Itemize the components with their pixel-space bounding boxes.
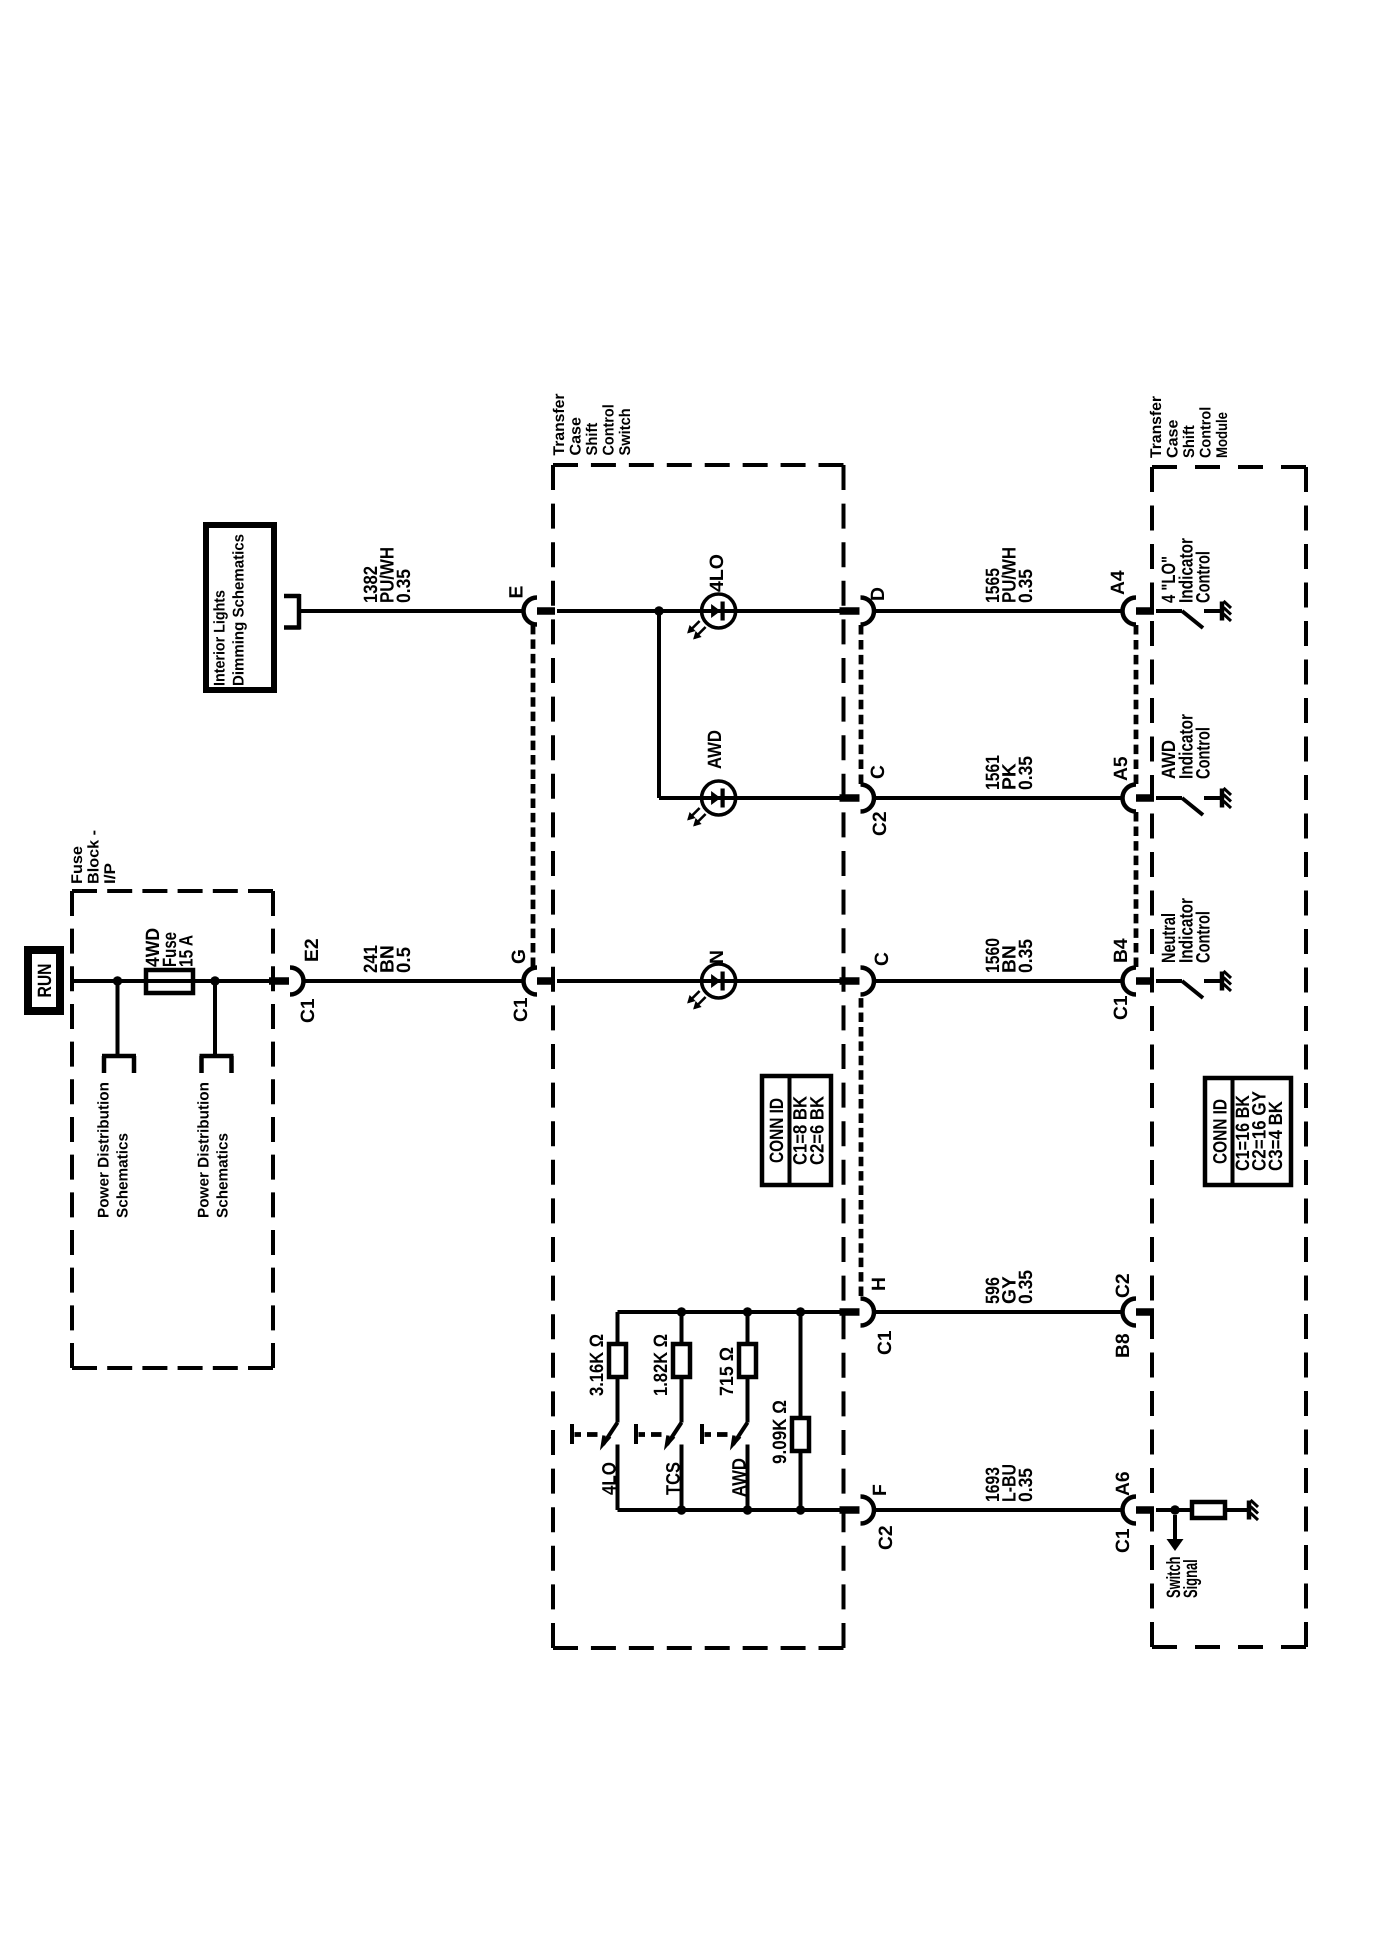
rung 9.09K wire segments — [799, 1312, 803, 1510]
svg-text:Block -: Block - — [86, 830, 103, 884]
svg-text:Control: Control — [1194, 727, 1215, 779]
wire A6 internal — [1156, 1508, 1192, 1512]
label 596 GY 0.35 — [983, 1270, 1037, 1304]
label transfer case shift control module — [1148, 396, 1231, 458]
CONN ID table (module) — [1205, 1078, 1291, 1185]
junction dot H bus — [796, 1307, 805, 1316]
dotted connector line C2 D-C — [859, 625, 864, 784]
svg-text:C1: C1 — [875, 1330, 896, 1355]
svg-text:C: C — [872, 952, 893, 966]
svg-text:4LO: 4LO — [707, 554, 728, 592]
connector G (switch) — [524, 968, 556, 995]
wire 1560 BN — [874, 979, 1123, 983]
switch signal arrow — [1167, 1515, 1184, 1551]
dotted connector line C-H — [859, 998, 864, 1296]
wire row1 inside switch — [557, 609, 702, 613]
svg-text:C1: C1 — [1111, 995, 1132, 1020]
wire 596 GY — [874, 1310, 1123, 1314]
junction dot bus 2 — [210, 976, 219, 985]
svg-text:Schematics: Schematics — [115, 1133, 132, 1218]
svg-text:0.35: 0.35 — [1016, 939, 1037, 973]
resistor 715 Ω — [739, 1344, 756, 1377]
wire 241 BN 0.5 — [304, 979, 524, 983]
svg-text:D: D — [868, 587, 889, 601]
svg-text:CONN ID: CONN ID — [1211, 1099, 1232, 1164]
svg-text:0.35: 0.35 — [1016, 569, 1037, 603]
svg-text:N: N — [707, 950, 728, 964]
wire 1561 PK — [874, 796, 1123, 800]
connector E (switch) — [524, 598, 556, 625]
off-page bracket power dist 1 — [102, 1056, 136, 1073]
resistor (module pull) — [1192, 1502, 1225, 1518]
svg-text:I/P: I/P — [102, 863, 119, 884]
transfer case shift control module dashed box — [1152, 467, 1306, 1647]
svg-text:Power Distribution: Power Distribution — [96, 1082, 113, 1218]
module driver 4LO indicator — [1156, 601, 1231, 628]
rung TCS wire segments — [680, 1312, 684, 1510]
module driver neutral indicator — [1156, 971, 1231, 998]
label transfer case shift control switch — [551, 394, 634, 456]
junction dot bus 1 — [113, 976, 122, 985]
svg-text:Shift: Shift — [1181, 425, 1198, 458]
svg-text:Shift: Shift — [584, 423, 601, 456]
label power distribution 2 — [196, 1082, 232, 1218]
label power distribution 1 — [96, 1082, 132, 1218]
label 241 BN 0.5 — [361, 945, 415, 973]
junction dot F bus — [677, 1505, 686, 1514]
svg-text:AWD: AWD — [705, 730, 726, 769]
svg-text:C1: C1 — [511, 997, 532, 1022]
switch blade 4LO — [572, 1423, 618, 1446]
svg-text:1.82K Ω: 1.82K Ω — [651, 1334, 672, 1396]
wire 1693 L-BU — [874, 1508, 1123, 1512]
LED AWD — [687, 781, 736, 827]
switch blade TCS — [636, 1423, 682, 1446]
svg-text:Control: Control — [1194, 911, 1215, 963]
transfer case shift control switch dashed box — [553, 465, 844, 1648]
dotted module connector line A5-B4 — [1134, 812, 1139, 967]
resistor 1.82K Ω — [673, 1344, 690, 1377]
svg-text:C3=4 BK: C3=4 BK — [1266, 1101, 1287, 1171]
label 1560 BN 0.35 — [983, 938, 1037, 973]
svg-text:Control: Control — [1198, 407, 1215, 458]
LED 4LO — [687, 594, 736, 640]
LED N — [687, 964, 736, 1010]
resistor 3.16K Ω — [609, 1344, 626, 1377]
label 1693 L-BU 0.35 — [983, 1464, 1037, 1502]
connector D (switch exit) — [840, 598, 874, 625]
svg-text:F: F — [870, 1484, 891, 1496]
connector A4 (module) — [1123, 598, 1155, 625]
svg-text:H: H — [869, 1277, 890, 1291]
wire RUN to fuse — [72, 979, 148, 983]
svg-text:Schematics: Schematics — [215, 1133, 232, 1218]
label 1561 PK 0.35 — [983, 755, 1037, 790]
junction dot H bus — [743, 1307, 752, 1316]
junction dot H bus — [677, 1307, 686, 1316]
svg-text:Case: Case — [1165, 419, 1182, 458]
connector E2 at fuse block — [269, 968, 304, 995]
fuse block I/P dashed box — [72, 891, 273, 1368]
switch blade AWD — [702, 1423, 748, 1446]
wire F bus — [618, 1508, 840, 1512]
wire H bus — [618, 1310, 840, 1314]
svg-text:Power Distribution: Power Distribution — [196, 1082, 213, 1218]
resistor 9.09K — [792, 1418, 809, 1451]
module driver AWD indicator — [1156, 788, 1231, 815]
svg-text:3.16K Ω: 3.16K Ω — [587, 1334, 608, 1396]
fuse block label — [69, 830, 119, 884]
chassis ground (switch signal) — [1249, 1500, 1258, 1520]
svg-text:0.35: 0.35 — [1016, 1270, 1037, 1304]
off-page bracket interior lights — [284, 594, 300, 630]
svg-text:Signal: Signal — [1181, 1559, 1202, 1598]
fuse 4WD 15A — [146, 970, 193, 993]
label neutral indicator control — [1159, 898, 1215, 963]
svg-text:Dimming Schematics: Dimming Schematics — [231, 534, 248, 686]
off-page bracket power dist 2 — [200, 1056, 234, 1073]
svg-text:Transfer: Transfer — [1148, 396, 1165, 458]
connector A5 (module) — [1123, 785, 1155, 812]
junction dot F bus — [743, 1505, 752, 1514]
svg-text:C2: C2 — [1113, 1273, 1134, 1298]
wire resistor to ground — [1225, 1508, 1247, 1512]
junction dot F bus — [796, 1505, 805, 1514]
svg-text:C2: C2 — [876, 1525, 897, 1550]
svg-text:Fuse: Fuse — [69, 846, 86, 884]
connector C (switch exit row3) — [840, 968, 874, 995]
CONN ID table (switch) — [762, 1076, 831, 1185]
dotted module connector line A4-A5 — [1134, 625, 1139, 784]
svg-text:TCS: TCS — [664, 1462, 685, 1495]
svg-text:Case: Case — [568, 417, 585, 456]
svg-text:A5: A5 — [1111, 756, 1132, 781]
connector F (switch exit) — [840, 1497, 874, 1524]
label 1565 PU/WH 0.35 — [983, 547, 1037, 603]
junction dot switch signal — [1170, 1505, 1179, 1514]
wire row2 inside switch — [659, 796, 702, 800]
svg-text:15 A: 15 A — [177, 935, 198, 967]
svg-text:RUN: RUN — [35, 964, 56, 998]
label switch signal — [1164, 1557, 1202, 1599]
svg-text:Control: Control — [1194, 551, 1215, 603]
svg-text:B4: B4 — [1111, 938, 1132, 963]
svg-text:4LO: 4LO — [600, 1462, 621, 1495]
connector B4 (module) — [1123, 968, 1155, 995]
fuse label 4WD Fuse 15 A — [143, 928, 198, 967]
svg-text:C1: C1 — [1113, 1528, 1134, 1553]
svg-text:C2=6 BK: C2=6 BK — [808, 1096, 829, 1165]
wire 1565 PU/WH — [874, 609, 1123, 613]
rung AWD wire segments — [746, 1312, 750, 1510]
connector B8 (module) — [1123, 1299, 1155, 1326]
label 1382 PU/WH 0.35 — [361, 547, 415, 603]
svg-text:0.35: 0.35 — [1016, 756, 1037, 790]
svg-text:E2: E2 — [302, 938, 323, 962]
svg-text:Module: Module — [1214, 412, 1231, 458]
wire branch to power dist 1 — [116, 981, 120, 1054]
svg-text:0.35: 0.35 — [1016, 1468, 1037, 1502]
svg-text:AWD: AWD — [730, 1458, 751, 1497]
label AWD indicator control — [1159, 714, 1215, 779]
svg-text:G: G — [509, 949, 530, 964]
wire fuse to E2 — [191, 979, 271, 983]
connector H (switch exit) — [840, 1299, 874, 1326]
svg-text:Control: Control — [601, 404, 618, 455]
wire branch to power dist 2 — [213, 981, 217, 1054]
svg-text:A6: A6 — [1113, 1471, 1134, 1496]
svg-text:0.35: 0.35 — [394, 569, 415, 603]
connector C (switch exit row2) — [840, 785, 874, 812]
svg-text:Switch: Switch — [617, 408, 634, 455]
rung 4LO wire segments — [616, 1312, 620, 1510]
svg-text:0.5: 0.5 — [394, 947, 415, 973]
svg-text:715 Ω: 715 Ω — [717, 1347, 738, 1396]
svg-text:Transfer: Transfer — [551, 394, 568, 456]
svg-text:Interior Lights: Interior Lights — [212, 590, 229, 686]
svg-text:C: C — [868, 765, 889, 779]
svg-text:C1: C1 — [298, 998, 319, 1023]
label 4 LO indicator control — [1159, 538, 1215, 603]
wire row3 inside switch — [557, 979, 702, 983]
svg-text:C2: C2 — [870, 811, 891, 836]
svg-text:9.09K Ω: 9.09K Ω — [770, 1400, 791, 1464]
connector A6 (module) — [1123, 1497, 1155, 1524]
dotted connector line C1 E-G — [531, 625, 536, 967]
wire row2 to C — [736, 796, 840, 800]
wire row3 to C — [736, 979, 840, 983]
svg-text:A4: A4 — [1108, 570, 1129, 595]
wire 1382 PU/WH — [301, 609, 524, 613]
interior lights dimming box — [206, 525, 274, 690]
wire branch row1-row2 — [657, 611, 661, 798]
junction dot row1 — [654, 606, 663, 615]
svg-text:CONN ID: CONN ID — [767, 1098, 788, 1163]
svg-text:E: E — [507, 586, 528, 599]
svg-text:B8: B8 — [1113, 1333, 1134, 1358]
wire row1 to D — [736, 609, 840, 613]
ignition RUN feed box — [28, 950, 60, 1011]
